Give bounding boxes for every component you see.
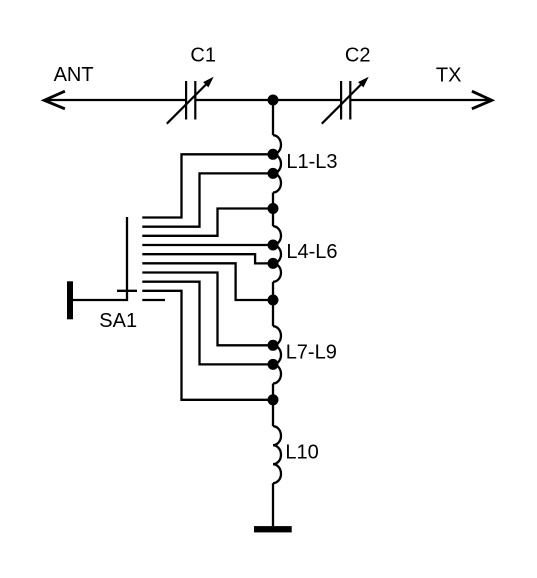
switch SA1 pole terminal bar <box>67 281 73 319</box>
switch contact 8 wire to tap8 <box>142 282 273 365</box>
svg-text:L10: L10 <box>285 442 318 464</box>
inductor L10 <box>273 426 281 483</box>
node tap7 <box>268 340 279 351</box>
svg-text:L7-L9: L7-L9 <box>286 342 337 364</box>
ground <box>254 526 292 532</box>
switch contact 2 wire to tap2 <box>142 173 273 226</box>
wire L6 to L7 <box>272 282 274 326</box>
switch contact 7 wire to tap7 <box>142 273 273 346</box>
node A junction C1 C2 coil <box>268 95 279 106</box>
node tap8 <box>268 359 279 370</box>
capacitor C1 <box>167 77 214 124</box>
inductor L7-L9 <box>273 326 281 383</box>
wire pole to wiper arm <box>73 217 127 300</box>
switch contact 4 wire to tap4 <box>142 244 273 246</box>
switch contact 5 wire to tap5 <box>142 254 273 263</box>
switch contact 9 wire to tap9 <box>142 291 273 400</box>
wire L3 to L4 <box>272 193 274 227</box>
svg-text:SA1: SA1 <box>99 310 137 332</box>
svg-text:L1-L3: L1-L3 <box>286 151 337 173</box>
node tap4 <box>268 240 279 251</box>
node tap3 <box>268 203 279 214</box>
switch contact 6 wire to tap6 <box>142 263 273 300</box>
inductor L1-L3 <box>273 135 281 192</box>
terminal arrow ANT <box>44 91 65 109</box>
wire C1 to C2 <box>195 99 341 101</box>
svg-text:ANT: ANT <box>54 64 94 86</box>
node tap2 <box>268 168 279 179</box>
wire ANT to C1 <box>45 99 186 101</box>
svg-text:TX: TX <box>436 64 462 86</box>
switch contact 1 wire to tap1 <box>142 154 273 217</box>
capacitor C2 <box>322 77 369 124</box>
wire L9 to L10 <box>272 384 274 427</box>
wire L10 to ground <box>272 483 274 526</box>
svg-text:C1: C1 <box>190 45 216 67</box>
svg-text:L4-L6: L4-L6 <box>286 241 337 263</box>
terminal arrow TX <box>472 91 492 109</box>
switch contact 10 open stub <box>142 299 165 301</box>
switch SA1 wiper tick <box>117 290 137 292</box>
wire node A to L1 <box>272 100 274 135</box>
node tap9 <box>268 394 279 405</box>
node tap1 <box>268 149 279 160</box>
svg-text:C2: C2 <box>345 45 371 67</box>
inductor L4-L6 <box>273 226 281 282</box>
wire C2 to TX <box>350 99 491 101</box>
switch contact 3 wire to tap3 <box>142 209 273 236</box>
node tap6 <box>268 295 279 306</box>
node tap5 <box>268 258 279 269</box>
